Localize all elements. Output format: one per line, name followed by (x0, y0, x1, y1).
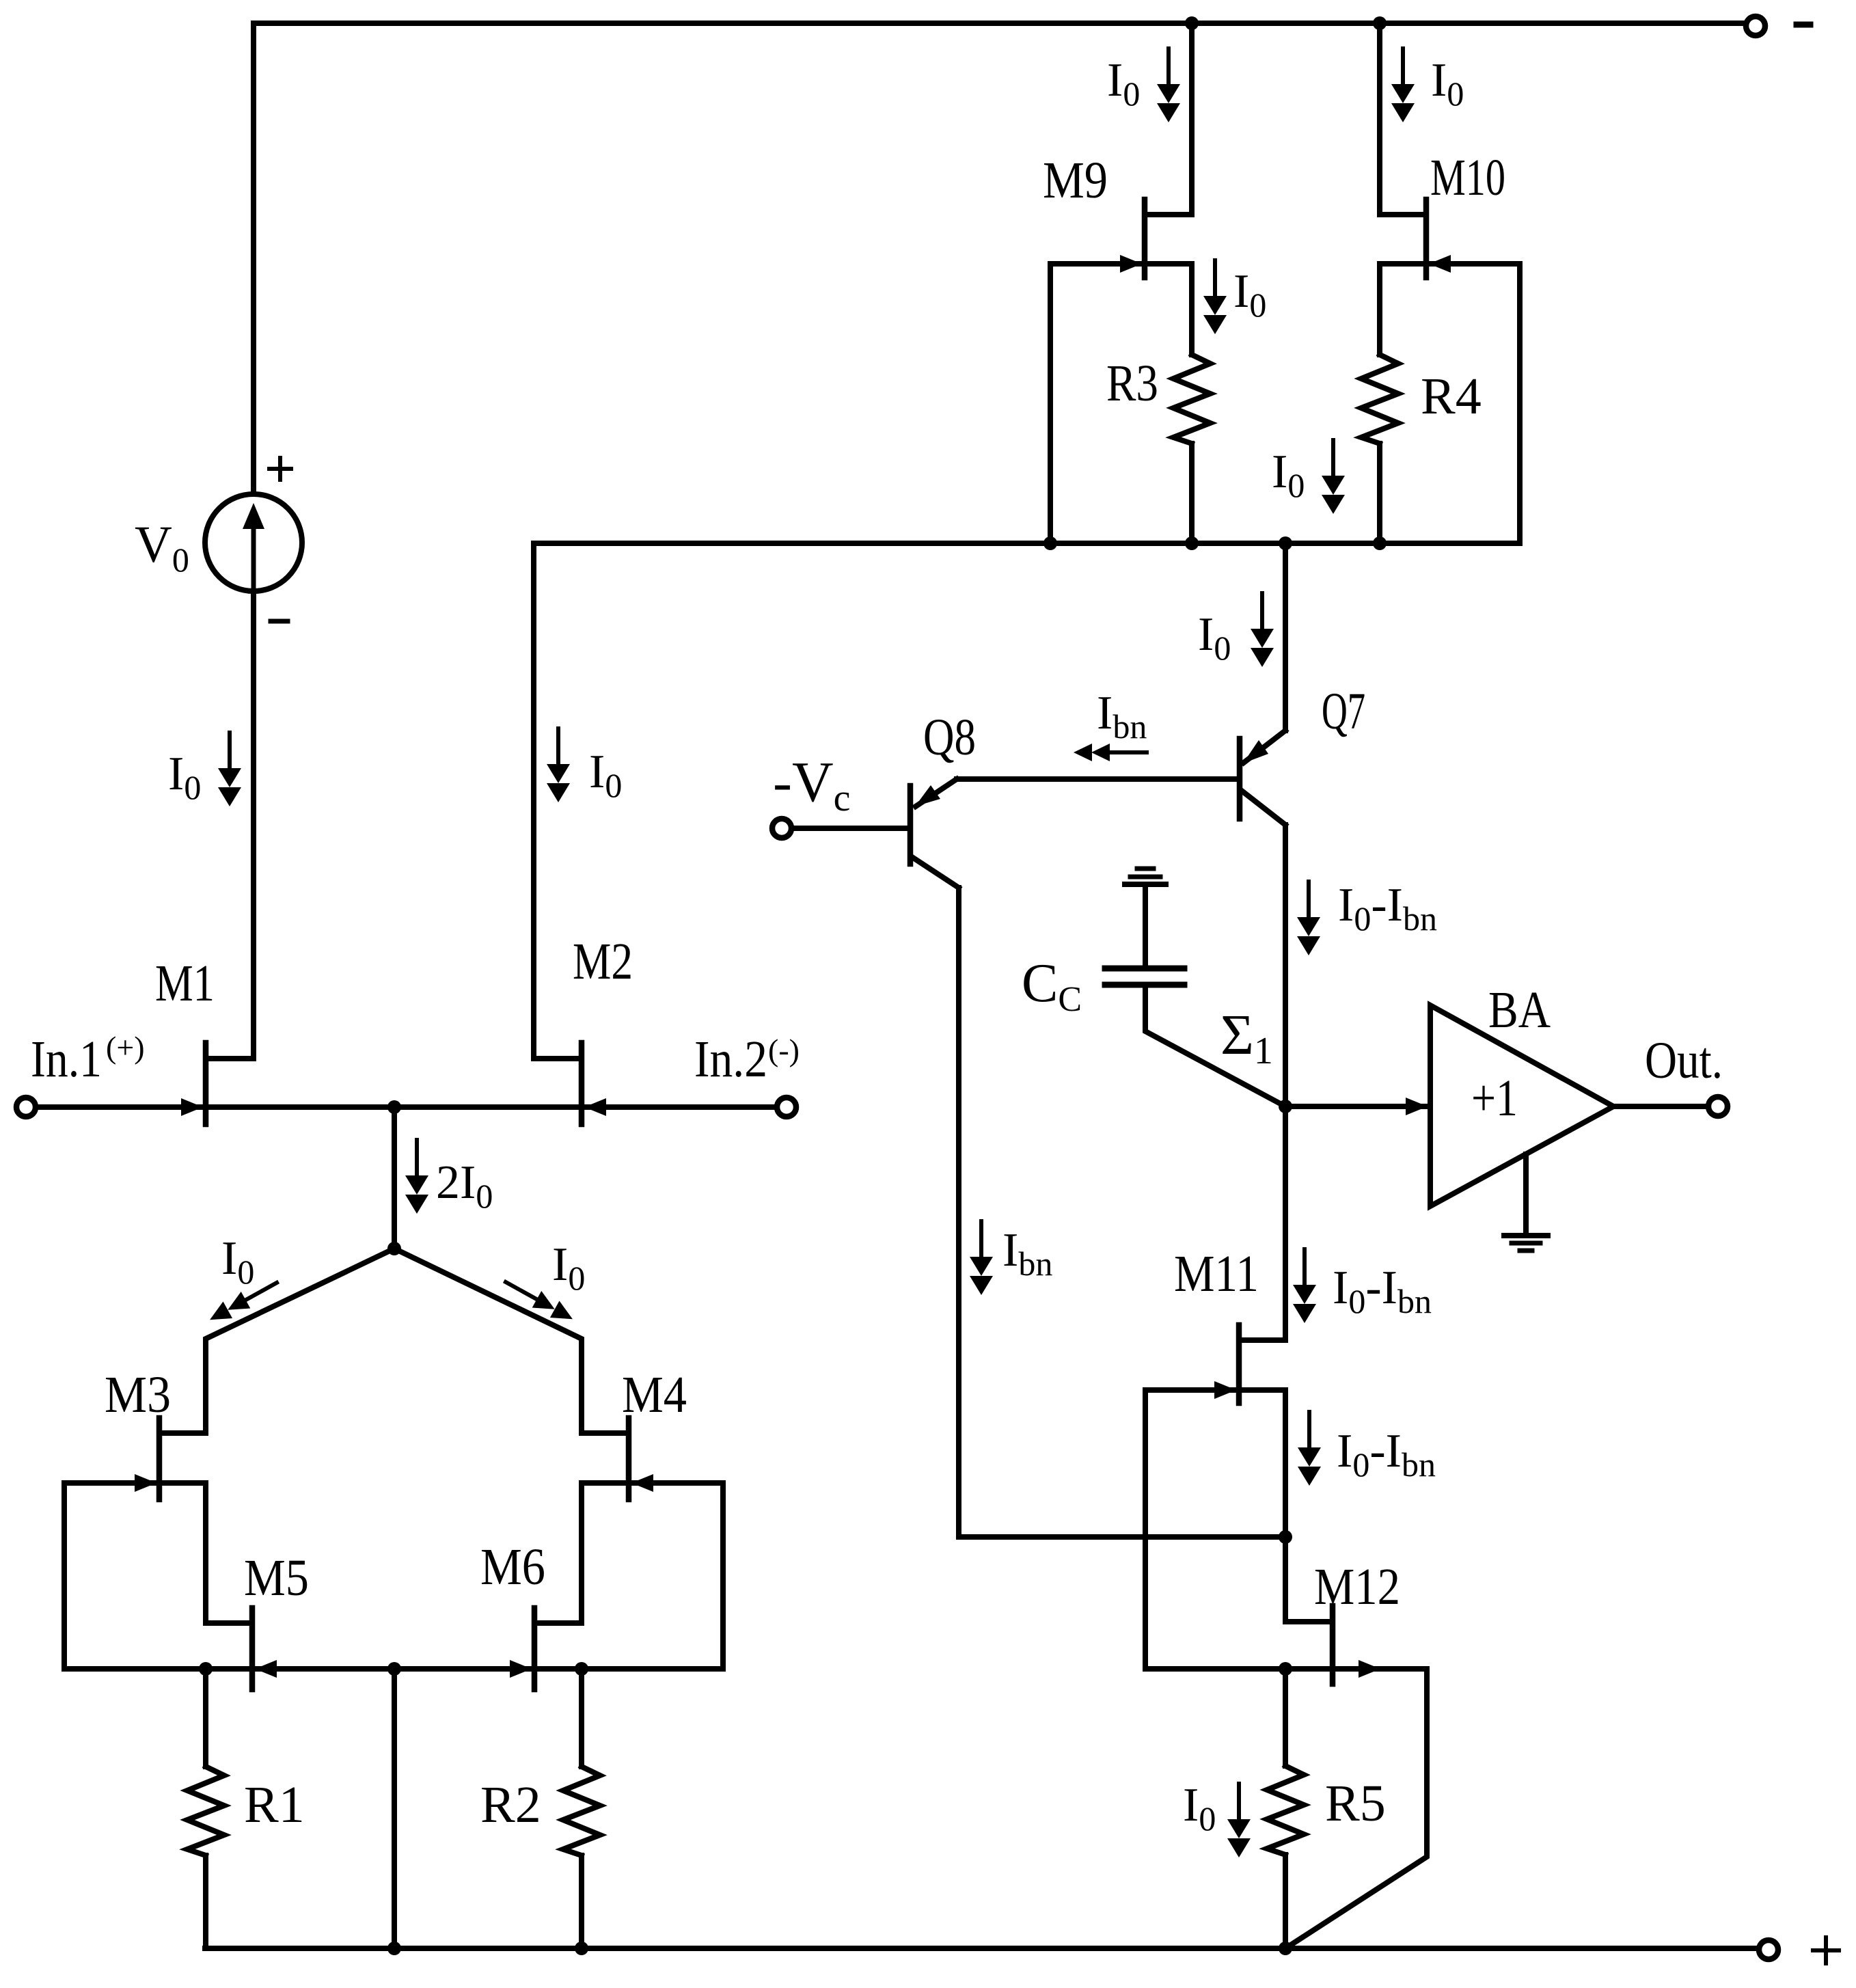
wire (input gate line In.1 - In.2) (36, 1104, 776, 1110)
wire (tail to M3 drain) (206, 1249, 394, 1433)
transistor M1 (155, 955, 254, 1124)
svg-text:CC​: CC​ (1022, 953, 1082, 1019)
wire (Q8 collector to M12 drain node) (959, 1534, 1285, 1540)
svg-text:In.2: In.2 (694, 1031, 767, 1088)
transistor Q8 (910, 709, 976, 888)
svg-text:M3: M3 (105, 1366, 171, 1424)
wire (M9 drain) (1189, 23, 1195, 215)
svg-text:2I0​: 2I0​ (436, 1156, 493, 1215)
svg-text:I0​: I0​ (1431, 54, 1464, 113)
wire (M12 gate line) (1145, 1666, 1333, 1672)
current annotation 2I0 (405, 1140, 493, 1215)
current annotation Ibn (Q7 base) (1074, 687, 1147, 761)
transistor M3 (105, 1366, 206, 1499)
svg-text:M12: M12 (1314, 1558, 1400, 1616)
wire (M3 gate loop) (64, 1483, 206, 1669)
node (R5 bottom rail) (1279, 1942, 1292, 1955)
wire (V0 to M1 drain) (251, 591, 256, 1059)
wire (M4 gate loop) (582, 1483, 723, 1669)
svg-text:(+): (+) (106, 1030, 145, 1065)
transistor Q7 (1240, 683, 1365, 825)
positive supply rail (bottom) (205, 1946, 1760, 1951)
capacitor CC (1022, 953, 1184, 1019)
svg-text:+1: +1 (1471, 1070, 1518, 1127)
current annotation I0-Ibn (Q7 collector) (1297, 879, 1437, 955)
current annotation I0 (node line) (1272, 440, 1345, 514)
wire (M11 gate line) (1145, 1387, 1239, 1393)
svg-text:M6: M6 (480, 1538, 545, 1596)
wire (M10 gate line) (1380, 261, 1520, 267)
svg-text:M5: M5 (244, 1549, 309, 1607)
wire (Q8 collector down) (956, 888, 961, 1537)
resistor R2 (480, 1669, 600, 1948)
resistor R5 (1267, 1669, 1386, 1948)
node (M11 source / M12 drain) (1279, 1530, 1292, 1544)
current annotation I0 (M9 drain) (1107, 49, 1180, 122)
wire (M9 gate loop) (1048, 264, 1053, 543)
svg-text:-Vc​: -Vc​ (773, 750, 851, 819)
node (Q7 emitter tap) (1279, 536, 1292, 550)
svg-text:I0​: I0​ (1198, 608, 1231, 667)
resistor R3 (1106, 264, 1210, 543)
current annotation I0 (M3 branch) (205, 1232, 282, 1329)
svg-text:I0​: I0​ (552, 1238, 585, 1297)
transistor M9 (1043, 152, 1192, 277)
svg-text:I0​: I0​ (221, 1232, 254, 1291)
wire (tail to M4 drain) (394, 1249, 582, 1433)
transistor M2 (534, 933, 633, 1124)
current annotation I0-Ibn (M11 drain) (1293, 1249, 1432, 1323)
svg-text:Ibn​: Ibn​ (1002, 1224, 1052, 1283)
svg-text:R2: R2 (480, 1776, 541, 1834)
wire (sum node to buffer input) (1285, 1098, 1428, 1115)
wire (M11-M12 gate loop) (1143, 1390, 1148, 1669)
svg-text:I0​: I0​ (589, 746, 622, 804)
terminal + (bottom right) (1759, 1937, 1839, 1963)
svg-text:I0​-Ibn​: I0​-Ibn​ (1337, 1425, 1436, 1484)
node (center tail bottom) (387, 1662, 401, 1676)
svg-text:M9: M9 (1043, 152, 1108, 209)
negative supply rail (top) (254, 21, 1745, 26)
wire (Q7 collector) (1283, 825, 1288, 1106)
output terminal Out. (1645, 1032, 1728, 1116)
transistor M10 (1380, 149, 1505, 277)
wire (tail) (392, 1107, 397, 1249)
svg-text:M2: M2 (573, 933, 633, 990)
svg-text:I0​: I0​ (168, 748, 201, 806)
svg-text:Ibn​: Ibn​ (1097, 687, 1147, 746)
resistor R1 (187, 1669, 305, 1948)
wire (Q7 base line) (957, 776, 1240, 782)
op-amp BA (+1 buffer) (1430, 981, 1613, 1206)
node (M9 gate tap) (1043, 536, 1057, 550)
svg-text:I0​: I0​ (1107, 54, 1140, 113)
svg-text:I0​-Ibn​: I0​-Ibn​ (1333, 1262, 1432, 1320)
input terminal In.1 (16, 1030, 145, 1117)
wire (CC to sum node) (1145, 988, 1285, 1106)
node (R2 bottom rail) (575, 1942, 588, 1955)
current annotation I0 (Q7 emitter) (1198, 593, 1274, 667)
ground (buffer) (1504, 1154, 1548, 1251)
resistor R4 (1361, 264, 1482, 543)
svg-text:Q8: Q8 (923, 709, 976, 766)
wire (M3 source down) (203, 1483, 208, 1623)
current annotation I0 (R3) (1203, 260, 1266, 334)
wire (sum node to M11 drain) (1283, 1106, 1288, 1340)
node (R1 top) (199, 1662, 213, 1676)
svg-text:In.1: In.1 (31, 1031, 102, 1088)
current annotation I0 (M1 branch) (168, 733, 241, 806)
svg-text:R1: R1 (244, 1776, 305, 1834)
svg-text:Σ1​: Σ1​ (1220, 1003, 1273, 1072)
wire (M4 source down) (579, 1483, 584, 1623)
node (M10 drain on top rail) (1373, 16, 1387, 30)
terminal - (top right) (1746, 16, 1810, 36)
transistor M11 (1174, 1245, 1285, 1403)
node (R4 bottom) (1373, 536, 1387, 550)
svg-text:I0​: I0​ (1183, 1779, 1216, 1838)
wire (buffer output) (1613, 1104, 1708, 1109)
current annotation Ibn (Q8 collector) (970, 1221, 1052, 1295)
wire (node line to Q7 emitter) (1283, 543, 1288, 731)
svg-text:R3: R3 (1106, 355, 1158, 412)
terminal -Vc (772, 750, 851, 838)
wire (M10 gate loop) (1517, 264, 1523, 543)
transistor M4 (582, 1366, 687, 1499)
transistor M5 (206, 1549, 309, 1689)
current annotation I0 (M2 branch) (547, 729, 622, 804)
node (R3 bottom) (1185, 536, 1199, 550)
wire (gate node line M3-M6) (64, 1666, 723, 1672)
wire (M12 source loop) (1285, 1669, 1427, 1948)
transistor M12 (1285, 1558, 1400, 1684)
wire (node line to M2 drain) (531, 543, 536, 1059)
current annotation I0 (R5) (1183, 1779, 1251, 1857)
svg-text:(-): (-) (768, 1033, 800, 1067)
node Σ1 (sum node) (1220, 1003, 1292, 1113)
node (M9 drain on top rail) (1185, 16, 1199, 30)
wire (top rail to V0) (251, 23, 256, 494)
node (R5 top) (1279, 1662, 1292, 1676)
wire (node to M12 drain) (1283, 1537, 1288, 1622)
wire (center to bottom rail) (392, 1669, 397, 1948)
transistor M6 (480, 1538, 582, 1689)
wire (M11 source down) (1239, 1390, 1285, 1537)
svg-text:R5: R5 (1325, 1775, 1386, 1832)
svg-text:I0​: I0​ (1233, 265, 1266, 324)
svg-text:Q7: Q7 (1322, 683, 1365, 740)
svg-text:BA: BA (1488, 981, 1551, 1039)
svg-text:M4: M4 (622, 1366, 687, 1424)
svg-text:V0​: V0​ (135, 516, 189, 579)
current annotation I0 (M4 branch) (501, 1238, 585, 1328)
svg-text:M10: M10 (1430, 149, 1505, 206)
wire (Q8 base line) (793, 826, 910, 831)
svg-text:M11: M11 (1174, 1245, 1259, 1303)
node (center on bottom rail) (387, 1942, 401, 1955)
svg-text:R4: R4 (1421, 368, 1482, 425)
node (differential pair sources) (387, 1100, 401, 1114)
wire (M10 drain) (1377, 23, 1382, 215)
node (R2 top) (575, 1662, 588, 1676)
svg-text:I0​: I0​ (1272, 446, 1305, 504)
svg-text:Out.: Out. (1645, 1032, 1723, 1089)
input terminal In.2 (694, 1031, 800, 1117)
current annotation I0 (M10 drain) (1391, 49, 1464, 122)
wire (M9 gate line) (1050, 261, 1192, 267)
svg-text:M1: M1 (155, 955, 215, 1012)
voltage source V0 (135, 458, 302, 621)
node (tail split) (387, 1242, 401, 1255)
ground (CC top) (1125, 869, 1166, 966)
current annotation I0-Ibn (M11 source) (1298, 1412, 1436, 1486)
wire (mirror node line) (534, 541, 1520, 546)
svg-text:I0​-Ibn​: I0​-Ibn​ (1338, 879, 1437, 938)
